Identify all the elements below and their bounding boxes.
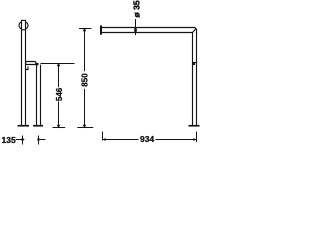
- wall flange knob (left view): [19, 21, 28, 29]
- dim 934 left extension line: [102, 132, 104, 141]
- svg-text:546: 546: [55, 87, 64, 101]
- dim 934 left arrow: [102, 138, 106, 141]
- dim 135 right tick blob: [37, 138, 39, 140]
- dim 546 top extension line: [41, 63, 75, 65]
- dim 934 line right segment: [156, 139, 197, 141]
- dim 135 left tick blob: [21, 138, 23, 140]
- dim 850 vertical line lower segment: [84, 89, 86, 128]
- left foot plate: [18, 125, 30, 127]
- dia 35 leader tick blob: [134, 28, 137, 32]
- dia 35 leader line: [135, 19, 137, 35]
- joint blob at second post top: [36, 63, 39, 65]
- dim 135 line left segment: [16, 139, 24, 141]
- dim 934 right extension line: [196, 132, 198, 143]
- svg-text:135: 135: [2, 135, 16, 145]
- tube joint line on right tube: [193, 62, 197, 64]
- right tube foot plate: [189, 125, 200, 127]
- post top end inside knob: [22, 20, 26, 29]
- dim 934 right arrow: [193, 138, 197, 141]
- dim 546 top arrow: [57, 63, 60, 67]
- wall flange bar of top tube: [100, 25, 102, 34]
- dim 135 right tick: [38, 136, 40, 145]
- dim 850 top extension line: [79, 28, 91, 30]
- dim 850 bottom arrow: [83, 125, 86, 129]
- dim 934 line left segment: [103, 139, 139, 141]
- svg-text:850: 850: [81, 73, 90, 87]
- bracket lower hook on main post: [26, 67, 29, 70]
- right vertical tube left edge: [192, 33, 194, 126]
- dim 135 line right segment: [39, 139, 46, 141]
- dim 546 vertical line lower segment: [58, 102, 60, 128]
- main post right edge: [25, 30, 27, 125]
- top tube lower edge with inner corner: [102, 32, 193, 35]
- tube joint blob: [193, 63, 195, 66]
- bracket clamp between posts: [26, 62, 37, 65]
- dim 546 vertical line upper segment: [58, 64, 60, 88]
- top tube upper edge with mitred corner: [102, 28, 197, 34]
- second post left edge: [36, 65, 38, 125]
- corner mitre seam: [193, 28, 196, 32]
- right foot plate of second post: [33, 125, 43, 127]
- svg-text:ø 35: ø 35: [132, 0, 142, 17]
- dim 850 top arrow: [83, 28, 86, 32]
- dim 850 bottom floor line: [77, 127, 93, 129]
- svg-text:934: 934: [140, 134, 154, 144]
- dim 135 left tick: [22, 136, 24, 145]
- second post right edge: [40, 65, 42, 125]
- dim 546 bottom arrow: [57, 125, 60, 129]
- right vertical tube right edge: [196, 33, 198, 126]
- dim 546 bottom floor line: [53, 127, 66, 129]
- dim 850 vertical line upper segment: [84, 29, 86, 72]
- main post left edge: [21, 30, 23, 125]
